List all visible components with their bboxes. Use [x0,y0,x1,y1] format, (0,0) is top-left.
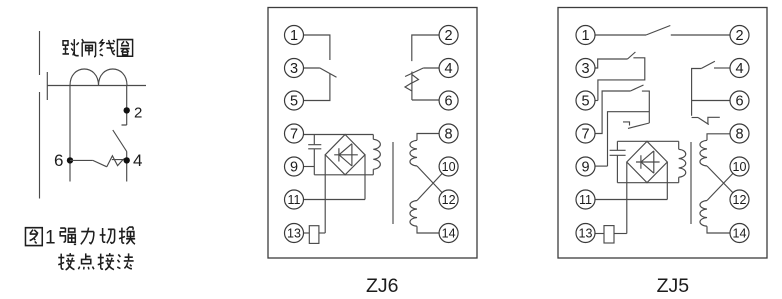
contact blade 7 branch [630,85,643,91]
wire: bridge minus to terminal 13 branch [324,155,326,233]
wire: terminal 4 lead [423,67,439,69]
svg-text:9: 9 [290,160,298,176]
crossover wire to 12 ZJ5 [707,166,740,200]
wire: main horizontal [47,85,146,87]
terminal 6 (ZJ5) [730,91,749,110]
svg-text:2: 2 [445,28,453,44]
svg-text:1: 1 [45,228,56,249]
terminal 14 (ZJ6) [439,224,458,243]
wire: terminal 7 lead [595,91,630,134]
svg-text:5: 5 [290,94,298,110]
svg-text:8: 8 [445,127,453,143]
diode inside bridge [334,144,358,166]
node 4 [124,157,130,163]
wire: terminal 5 lead [304,74,330,101]
wire: resistor to riser [319,232,325,234]
svg-text:4: 4 [735,61,743,77]
winding upper (8-12) [410,140,417,166]
wire: terminal 4 lead [714,67,730,69]
wire: terminal 3 lead [304,67,320,69]
contact blade 3 [628,52,636,59]
relay ZJ6 case [268,8,477,259]
svg-text:12: 12 [733,193,747,207]
terminal 2 (ZJ6) [439,26,458,45]
wire: terminal 8 lead ZJ5 [707,134,730,141]
trip coil (two humps) [70,69,127,86]
terminal 1 (ZJ6) [285,26,304,45]
wire: terminal 11 lead [304,199,366,201]
contact fixed + series link to 5 [598,58,645,101]
svg-text:12: 12 [442,193,456,207]
bridge top wire ZJ5 [617,140,678,142]
wire: terminal 2 lead [412,35,439,61]
bridge bottom wire ZJ5 [617,182,678,184]
terminal 7 (ZJ5) [576,124,595,143]
svg-text:9: 9 [581,160,589,176]
wire: resistor to riser ZJ5 [614,233,627,235]
wire: terminal 1 lead [595,34,646,36]
winding upper ZJ5 [700,140,707,166]
terminal 11 (ZJ5) [576,190,595,209]
caption line1 图1强力切换 (hand-drawn glyphs) [25,227,135,248]
svg-text:10: 10 [733,160,747,174]
spring zigzag contact [107,156,127,167]
svg-text:1: 1 [581,28,589,44]
contact fixed + drop [642,91,649,123]
svg-text:6: 6 [445,94,453,110]
contact blade 1-2 [646,26,670,36]
capacitor C plates [308,145,321,149]
terminal 3 (ZJ6) [285,59,304,78]
contact blade 4 [405,68,423,77]
svg-text:11: 11 [288,193,301,207]
terminal 8 (ZJ5) [730,124,749,143]
resistor R (terminal 13) [309,226,319,244]
wire: terminal 11 lead ZJ5 [595,199,667,201]
svg-text:14: 14 [733,227,747,241]
winding lower ZJ5 [700,201,707,227]
reactor coil right of bridge [372,135,374,140]
svg-text:1: 1 [290,28,298,44]
terminal 13 (ZJ5) [576,224,595,243]
transformer core separator ZJ5 [690,142,692,224]
wire: bridge minus to terminal 13 branch ZJ5 [626,162,628,234]
contact blade 4 [701,61,715,68]
crossover wire to 12 [417,166,449,200]
winding lower (10-14) [410,201,417,227]
wire: terminal 14 lead ZJ5 [707,226,730,233]
rectifier bridge diamond ZJ5 [627,141,668,182]
break contact elbow below 6 [692,117,698,119]
wire: node6 to blade [70,159,93,161]
terminal 11 (ZJ6) [285,190,304,209]
capacitor C stub bottom [313,149,315,175]
wire: terminal 14 lead [417,226,439,233]
wire: terminal 13 lead [303,232,310,234]
break contact blade below 6 [698,118,709,125]
terminal 12 (ZJ5) [730,190,749,209]
capacitor stub bottom ZJ5 [616,156,618,183]
wire: terminal 8 lead [417,134,439,141]
wire: bridge plus to terminal 11 [364,155,366,200]
wire: bridge bottom wire [314,174,373,176]
wire: terminal 13 lead ZJ5 [595,233,604,235]
svg-text:3: 3 [581,61,589,77]
terminal 9 (ZJ5) [576,157,595,176]
terminal 1 (ZJ5) [576,26,595,45]
capacitor stub top ZJ5 [616,141,618,150]
node 2 [124,107,130,113]
capacitor C stub top [313,135,315,145]
thermal element (double flag) on 4-6 branch [405,72,419,101]
terminal 4 (ZJ5) [730,59,749,78]
svg-text:ZJ6: ZJ6 [366,275,399,297]
wire: terminal 9 lead [304,166,315,168]
terminal 10 (ZJ5) [730,157,749,176]
svg-text:5: 5 [581,94,589,110]
terminal 5 (ZJ6) [285,91,304,110]
svg-text:2: 2 [735,28,743,44]
wire: terminal 6 lead [692,100,730,102]
terminal bus (left plug symbol lower) [39,92,41,199]
svg-text:13: 13 [579,227,593,241]
crossover wire from 10 [417,167,449,201]
wire: bridge plus to terminal 11 ZJ5 [666,162,668,200]
wire: terminal 9 lead [595,165,608,167]
relay ZJ5 case [558,8,767,259]
resistor R (terminal 13) ZJ5 [604,226,614,243]
wire: terminal 2 lead [671,34,730,36]
reactor coil right of bridge ZJ5 [678,141,680,149]
terminal 13 (ZJ6) [285,224,304,243]
svg-text:10: 10 [442,160,456,174]
terminal 10 (ZJ6) [439,157,458,176]
svg-text:6: 6 [735,94,743,110]
terminal 12 (ZJ6) [439,190,458,209]
crossover wire from 10 ZJ5 [707,167,740,201]
svg-text:4: 4 [445,61,453,77]
wire: terminal 6 lead [412,99,439,101]
contact blade 3 [320,68,337,77]
break contact blade [628,123,649,128]
node 6 [67,157,73,163]
terminal 7 (ZJ6) [285,124,304,143]
break contact fixed tick [623,122,630,126]
rectifier bridge diamond [325,135,365,175]
wire: left vertical [69,86,71,182]
label: trip coil title 跳闸线圈 (hand-drawn glyphs) [63,39,133,57]
capacitor plates ZJ5 [610,150,626,155]
wire: terminal 3 lead [595,59,628,68]
svg-text:11: 11 [579,193,592,207]
terminal 6 (ZJ6) [439,91,458,110]
svg-text:14: 14 [442,227,456,241]
wire: cross link to terminal 9 [608,112,650,166]
contact 4 elbow [692,69,702,116]
terminal 3 (ZJ5) [576,59,595,78]
terminal 2 (ZJ5) [730,26,749,45]
svg-text:6: 6 [54,151,63,170]
svg-text:7: 7 [581,127,589,143]
contact blade lower [93,160,107,166]
svg-text:3: 3 [290,61,298,77]
svg-text:4: 4 [133,151,142,170]
break contact fixed below 6 [708,117,720,124]
wire: terminal 7 lead / bridge top wire [304,134,374,136]
svg-text:2: 2 [134,105,142,122]
wire: terminal 5 lead [595,100,598,102]
diode inside bridge ZJ5 [636,151,660,173]
terminal bus (left plug symbol upper) [39,31,41,75]
switch blade (node2 to node4) [113,130,127,152]
svg-text:13: 13 [287,227,301,241]
transformer core separator ZJ6 [392,142,394,224]
svg-text:ZJ5: ZJ5 [657,275,690,297]
terminal 8 (ZJ6) [439,124,458,143]
plug plate [46,72,48,100]
wire: right vertical upper to node 2 [122,86,127,126]
wire: terminal 1 lead [304,35,330,60]
terminal 4 (ZJ6) [439,59,458,78]
terminal 5 (ZJ5) [576,91,595,110]
terminal 9 (ZJ6) [285,157,304,176]
terminal 14 (ZJ5) [730,224,749,243]
caption line2 接点接法 (hand-drawn glyphs) [58,253,133,270]
svg-text:8: 8 [735,127,743,143]
svg-text:7: 7 [290,127,298,143]
wire: right vertical lower [126,152,128,182]
